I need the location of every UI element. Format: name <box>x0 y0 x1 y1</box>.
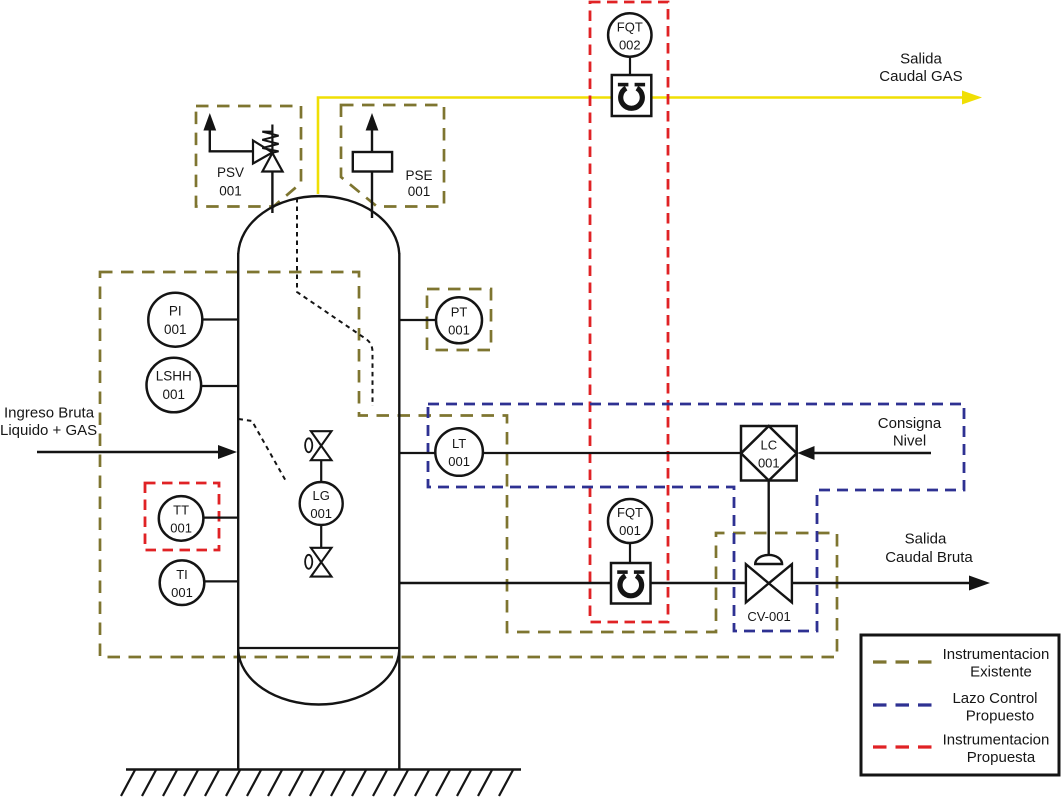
PSV-001 spring <box>262 132 278 153</box>
node olive box PSV-001 <box>196 106 301 207</box>
wire TT-001 tap <box>203 516 238 518</box>
svg-text:Propuesta: Propuesta <box>967 749 1036 766</box>
svg-text:PSE: PSE <box>405 168 432 183</box>
relief valve PSV-001 body <box>253 141 272 164</box>
instrument LT-001 <box>435 428 483 476</box>
valve LG lower isolation valve <box>320 525 322 548</box>
svg-text:001: 001 <box>171 585 193 600</box>
node red box around TT-001 <box>145 483 219 550</box>
controller LC-001 square <box>741 426 797 481</box>
vessel bottom seam line <box>238 647 399 649</box>
svg-text:Propuesto: Propuesto <box>966 708 1034 725</box>
svg-text:001: 001 <box>219 184 242 199</box>
svg-text:001: 001 <box>170 521 192 536</box>
instrument LSHH-001 <box>147 358 202 413</box>
svg-text:LSHH: LSHH <box>156 369 192 384</box>
svg-text:Nivel: Nivel <box>893 433 926 450</box>
instrument TI-001 <box>160 560 205 605</box>
svg-text:Liquido + GAS: Liquido + GAS <box>0 422 97 439</box>
totalizer FQT-002 symbol box <box>612 75 652 116</box>
svg-text:001: 001 <box>448 454 470 469</box>
svg-text:LC: LC <box>760 438 777 453</box>
instrument PT-001 <box>436 297 482 343</box>
yellow arrowhead gas outlet <box>962 91 982 105</box>
svg-text:001: 001 <box>164 322 187 337</box>
control valve CV-001 actuator dome <box>755 555 782 564</box>
level gauge LG-001 <box>300 482 343 525</box>
svg-text:TT: TT <box>173 503 189 518</box>
controller LC-001 diamond <box>741 426 797 481</box>
legend red dash sample <box>873 745 933 748</box>
totalizer FQT-001 symbol box <box>611 563 651 604</box>
instrument PI-001 <box>148 293 202 347</box>
wire PSE-001 to vessel dome <box>371 172 373 219</box>
svg-text:001: 001 <box>758 456 780 471</box>
svg-text:LG: LG <box>313 488 330 503</box>
instrument FQT-001 <box>608 499 652 543</box>
svg-text:001: 001 <box>619 523 641 538</box>
vessel top dome <box>238 196 399 254</box>
legend box <box>861 635 1059 775</box>
wire PSV-001 to vessel dome <box>271 172 273 214</box>
wire yellow gas outlet line <box>318 98 964 195</box>
node olive region Instrumentacion Existente (main polygon) <box>100 272 837 657</box>
wire inlet line Ingreso <box>37 451 220 453</box>
svg-text:PT: PT <box>451 304 468 319</box>
rupture disc PSE-001 <box>353 152 392 172</box>
svg-text:FQT: FQT <box>617 505 643 520</box>
svg-text:Lazo Control: Lazo Control <box>952 690 1037 707</box>
wire FQT-001 connector <box>629 543 631 564</box>
arrowhead into LC-001 <box>798 446 815 460</box>
svg-text:TI: TI <box>176 567 188 582</box>
svg-text:FQT: FQT <box>617 20 643 35</box>
wire liquid outlet line Salida Caudal Bruta <box>399 582 746 584</box>
wire PT-001 tap <box>399 319 436 321</box>
wire dotted internal line from inlet <box>239 419 288 483</box>
svg-text:Ingreso Bruta: Ingreso Bruta <box>4 405 95 422</box>
svg-text:Caudal GAS: Caudal GAS <box>879 68 962 85</box>
svg-text:Instrumentacion: Instrumentacion <box>943 732 1050 749</box>
svg-text:Caudal Bruta: Caudal Bruta <box>885 549 973 566</box>
valve LG upper isolation valve <box>320 460 322 483</box>
PSV-001 vent arrow <box>209 127 211 152</box>
svg-text:Existente: Existente <box>970 664 1032 681</box>
wire Consigna Nivel setpoint line <box>814 452 931 454</box>
instrument FQT-002 <box>608 13 651 56</box>
wire TI-001 tap <box>204 580 238 582</box>
wire LC-001 to CV-001 stem <box>768 481 770 559</box>
legend blue dash sample <box>873 703 933 706</box>
svg-text:PSV: PSV <box>217 165 244 180</box>
svg-text:001: 001 <box>408 184 431 199</box>
svg-text:001: 001 <box>448 322 470 337</box>
node blue region Lazo Control Propuesto <box>428 404 964 631</box>
svg-text:002: 002 <box>619 38 641 53</box>
node red tall box Instrumentacion Propuesta (FQT-002 loop) <box>590 2 668 622</box>
svg-text:001: 001 <box>163 387 186 402</box>
svg-text:CV-001: CV-001 <box>747 609 790 624</box>
vessel separator column left wall <box>237 253 239 769</box>
ground line <box>126 768 521 771</box>
wire FQT-002 connector <box>629 57 631 76</box>
wire LSHH-001 tap <box>201 385 238 387</box>
node olive box PT-001 <box>427 289 491 350</box>
wire PI-001 tap <box>202 318 238 320</box>
vessel separator column right wall <box>398 253 400 769</box>
svg-text:Salida: Salida <box>900 51 942 68</box>
svg-text:Consigna: Consigna <box>878 415 942 432</box>
PSE-001 vent arrow <box>371 128 373 152</box>
vessel dished bottom head <box>238 650 399 705</box>
svg-text:LT: LT <box>452 436 466 451</box>
control valve CV-001 body <box>746 564 769 602</box>
wire PSV-001 inlet <box>209 150 254 152</box>
outlet arrowhead <box>969 576 990 591</box>
wire dotted internal line from top nozzle <box>297 198 373 406</box>
node olive box PSE-001 <box>341 105 444 207</box>
svg-text:Instrumentacion: Instrumentacion <box>943 646 1050 663</box>
instrument TT-001 <box>159 496 204 541</box>
ground hatching <box>121 770 513 796</box>
svg-text:001: 001 <box>310 506 332 521</box>
svg-text:PI: PI <box>169 304 182 319</box>
svg-text:Salida: Salida <box>905 531 947 548</box>
legend olive dash sample <box>873 660 933 663</box>
wire LT-001 tap and signal to LC-001 <box>399 452 436 454</box>
inlet arrowhead <box>218 445 237 459</box>
